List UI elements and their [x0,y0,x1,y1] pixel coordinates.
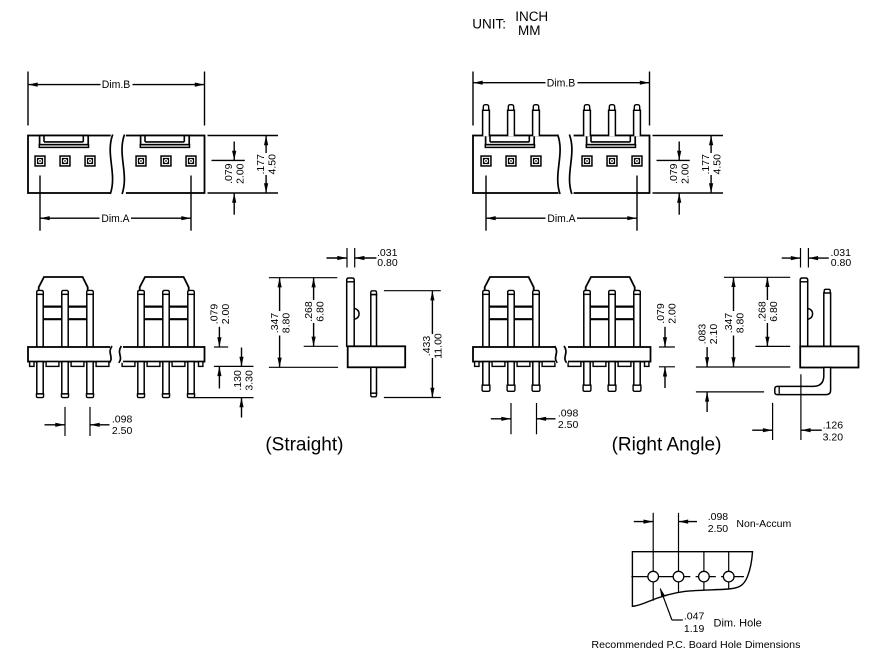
svg-text:Dim.B: Dim.B [102,79,131,91]
svg-text:.347: .347 [723,313,735,334]
svg-text:.047: .047 [684,610,705,622]
svg-text:4.50: 4.50 [711,154,723,175]
svg-text:Non-Accum: Non-Accum [736,518,791,530]
svg-text:.433: .433 [421,336,433,357]
svg-text:0.80: 0.80 [831,257,852,269]
svg-text:.268: .268 [757,301,769,322]
svg-text:2.00: 2.00 [667,303,679,324]
svg-text:11.00: 11.00 [432,333,444,359]
svg-text:3.30: 3.30 [244,370,256,391]
svg-text:.098: .098 [708,511,729,523]
svg-text:.347: .347 [269,313,281,334]
svg-text:2.50: 2.50 [558,419,579,431]
svg-text:Dim.A: Dim.A [547,213,576,225]
svg-text:4.50: 4.50 [266,154,278,175]
svg-text:.079: .079 [223,163,235,184]
svg-text:UNIT:: UNIT: [472,16,506,31]
svg-text:Dim. Hole: Dim. Hole [714,617,762,629]
svg-text:.083: .083 [696,324,708,345]
svg-text:Recommended P.C. Board Hole Di: Recommended P.C. Board Hole Dimensions [591,639,800,651]
svg-text:2.00: 2.00 [235,163,247,184]
svg-text:2.00: 2.00 [680,163,692,184]
svg-text:.079: .079 [209,304,221,325]
svg-text:.177: .177 [255,154,267,175]
svg-text:(Straight): (Straight) [265,435,343,456]
svg-text:2.50: 2.50 [708,523,729,535]
svg-text:.268: .268 [303,301,315,322]
svg-text:1.19: 1.19 [684,623,705,635]
svg-text:.177: .177 [700,154,712,175]
svg-text:2.00: 2.00 [220,304,232,325]
svg-text:Dim.B: Dim.B [547,77,576,89]
svg-text:.098: .098 [558,407,579,419]
svg-text:.098: .098 [112,413,133,425]
svg-text:2.10: 2.10 [708,324,720,345]
svg-text:(Right Angle): (Right Angle) [612,435,722,456]
svg-text:Dim.A: Dim.A [101,213,130,225]
svg-text:6.80: 6.80 [314,301,326,322]
svg-text:2.50: 2.50 [112,425,133,437]
svg-text:6.80: 6.80 [768,301,780,322]
svg-text:.079: .079 [668,163,680,184]
svg-text:8.80: 8.80 [281,313,293,334]
svg-text:.079: .079 [655,303,667,324]
svg-text:3.20: 3.20 [823,431,844,443]
svg-text:0.80: 0.80 [377,257,398,269]
svg-text:.130: .130 [232,370,244,391]
svg-text:INCH: INCH [515,9,548,24]
svg-text:.126: .126 [823,420,844,432]
svg-text:8.80: 8.80 [735,313,747,334]
svg-text:MM: MM [518,23,541,38]
